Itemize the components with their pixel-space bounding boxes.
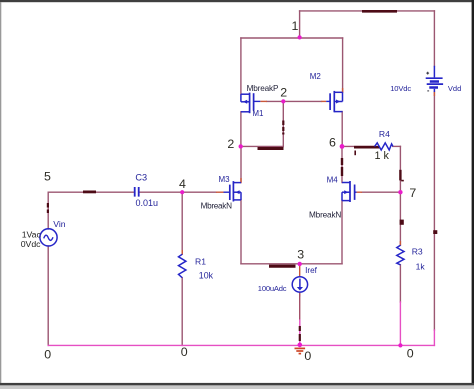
svg-text:2: 2 (280, 85, 287, 99)
svg-text:M3: M3 (219, 175, 231, 184)
svg-text:0: 0 (44, 348, 51, 362)
svg-text:6: 6 (329, 136, 336, 150)
svg-text:5: 5 (44, 169, 51, 183)
svg-text:1k: 1k (416, 262, 426, 272)
svg-text:2: 2 (227, 137, 234, 151)
svg-text:1Vac: 1Vac (22, 229, 42, 239)
svg-text:Vin: Vin (53, 219, 65, 229)
svg-text:0: 0 (181, 345, 188, 359)
svg-text:7: 7 (409, 186, 416, 200)
svg-text:R3: R3 (412, 246, 423, 256)
svg-text:10k: 10k (199, 271, 214, 281)
svg-text:MbreakP: MbreakP (247, 84, 279, 93)
svg-text:1: 1 (292, 19, 299, 33)
svg-text:MbreakN: MbreakN (309, 211, 341, 220)
svg-text:Vdd: Vdd (448, 84, 461, 93)
svg-text:R4: R4 (379, 129, 390, 139)
svg-text:0: 0 (304, 349, 311, 363)
svg-text:3: 3 (297, 247, 304, 261)
svg-text:0.01u: 0.01u (136, 198, 159, 208)
svg-text:M4: M4 (327, 175, 339, 184)
svg-text:0: 0 (407, 347, 414, 361)
svg-text:10Vdc: 10Vdc (390, 84, 411, 93)
svg-text:MbreakN: MbreakN (201, 201, 233, 210)
svg-text:C3: C3 (135, 172, 147, 182)
svg-text:M1: M1 (252, 109, 264, 118)
svg-text:0Vdc: 0Vdc (21, 239, 41, 249)
svg-text:100uAdc: 100uAdc (258, 284, 287, 293)
svg-text:R1: R1 (195, 257, 206, 267)
svg-text:1 k: 1 k (375, 150, 390, 162)
svg-text:M2: M2 (310, 72, 322, 81)
svg-text:Iref: Iref (305, 266, 318, 275)
svg-text:4: 4 (179, 177, 186, 191)
